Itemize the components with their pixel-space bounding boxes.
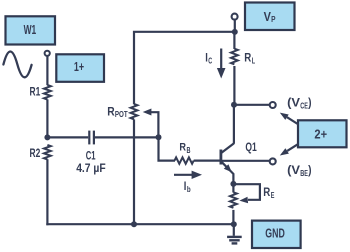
junction node A (R1/R2/C1): [44, 134, 50, 140]
label (VCE): [287, 95, 311, 110]
terminal node W1 output: [45, 51, 50, 56]
svg-text:b: b: [187, 185, 191, 194]
junction VP node: [232, 29, 238, 35]
svg-text:B: B: [187, 146, 191, 155]
wire VCE node to terminal: [234, 104, 269, 106]
RPOT wiper arrow: [143, 109, 159, 138]
terminal node VBE: [270, 158, 276, 164]
svg-text:GND: GND: [265, 227, 285, 241]
current arrow Ib: [174, 171, 202, 179]
wire node B down to RB: [159, 137, 176, 160]
wire RL to VCE node: [233, 66, 235, 105]
wire node A to C1: [47, 136, 88, 138]
junction ground node: [231, 221, 237, 227]
terminal node VCE: [270, 102, 276, 108]
svg-text:R: R: [244, 50, 251, 64]
wire RPOT to ground rail: [133, 119, 135, 224]
svg-text:POT: POT: [115, 110, 128, 119]
svg-text:): ): [308, 95, 311, 109]
wire top rail vertical (VP to RPOT): [134, 32, 235, 104]
junction on ground rail (RPOT leg): [131, 221, 137, 227]
svg-text:L: L: [252, 56, 255, 65]
svg-text:(V: (V: [287, 163, 300, 177]
svg-text:R1: R1: [30, 85, 41, 99]
wire Q1 base to VBE terminal: [222, 160, 269, 162]
wire RB to Q1 base: [194, 160, 220, 162]
label IC: [205, 51, 212, 66]
resistor RB: [175, 157, 194, 163]
label Ib: [184, 179, 191, 194]
resistor R1: [44, 85, 51, 99]
label RPOT: [107, 105, 127, 119]
wire C1 to node B: [95, 136, 159, 138]
wire R2 to ground rail: [46, 159, 48, 225]
svg-text:W1: W1: [24, 23, 37, 37]
svg-text:2+: 2+: [314, 127, 327, 141]
svg-text:P: P: [271, 15, 276, 24]
RE wiper arrow: [233, 184, 260, 203]
probe arrow 2+ to VCE: [280, 113, 299, 125]
svg-text:R: R: [107, 105, 115, 119]
ground symbol: [227, 224, 242, 243]
ground rail wire: [46, 223, 234, 225]
svg-text:(V: (V: [287, 95, 300, 109]
wire VP stub: [234, 20, 236, 32]
capacitor C1: [89, 131, 94, 145]
wire R1 to node A: [46, 99, 48, 137]
potentiometer RPOT: [131, 104, 138, 119]
svg-text:R: R: [263, 185, 270, 199]
junction VCE node: [231, 102, 237, 108]
wire W1 terminal to R1: [46, 56, 48, 85]
connector box VP: [245, 3, 295, 31]
resistor RE: [230, 192, 237, 208]
wire emitter node to RE: [232, 184, 234, 193]
svg-text:4.7 µF: 4.7 µF: [76, 161, 106, 175]
signal generator W1 sine symbol: [3, 52, 31, 78]
label RE: [263, 185, 275, 200]
connector box 2+: [298, 120, 347, 147]
terminal node VP: [232, 14, 238, 20]
junction emitter node: [230, 181, 236, 187]
label (VBE): [287, 163, 311, 178]
wire RE to ground node: [232, 210, 234, 224]
wire VP node to RL: [233, 32, 235, 49]
label RL: [244, 50, 255, 65]
junction node B (C1/RPOT wiper/RB): [156, 134, 162, 140]
label RB: [179, 142, 190, 155]
resistor RL: [231, 49, 238, 65]
resistor R2: [44, 145, 51, 159]
svg-text:): ): [308, 163, 311, 177]
wire VCE node to Q1 collector: [233, 105, 235, 144]
svg-text:R2: R2: [30, 146, 41, 160]
connector box W1: [6, 16, 56, 44]
svg-text:E: E: [271, 191, 275, 200]
probe arrow 2+ to VBE: [280, 144, 299, 156]
svg-text:C: C: [208, 56, 212, 65]
connector box GND: [252, 221, 301, 248]
connector box 1+: [56, 54, 104, 82]
svg-text:R: R: [179, 142, 186, 154]
svg-text:1+: 1+: [74, 60, 84, 74]
transistor Q1: [221, 143, 234, 181]
svg-text:Q1: Q1: [245, 140, 257, 154]
current arrow IC: [217, 49, 226, 79]
